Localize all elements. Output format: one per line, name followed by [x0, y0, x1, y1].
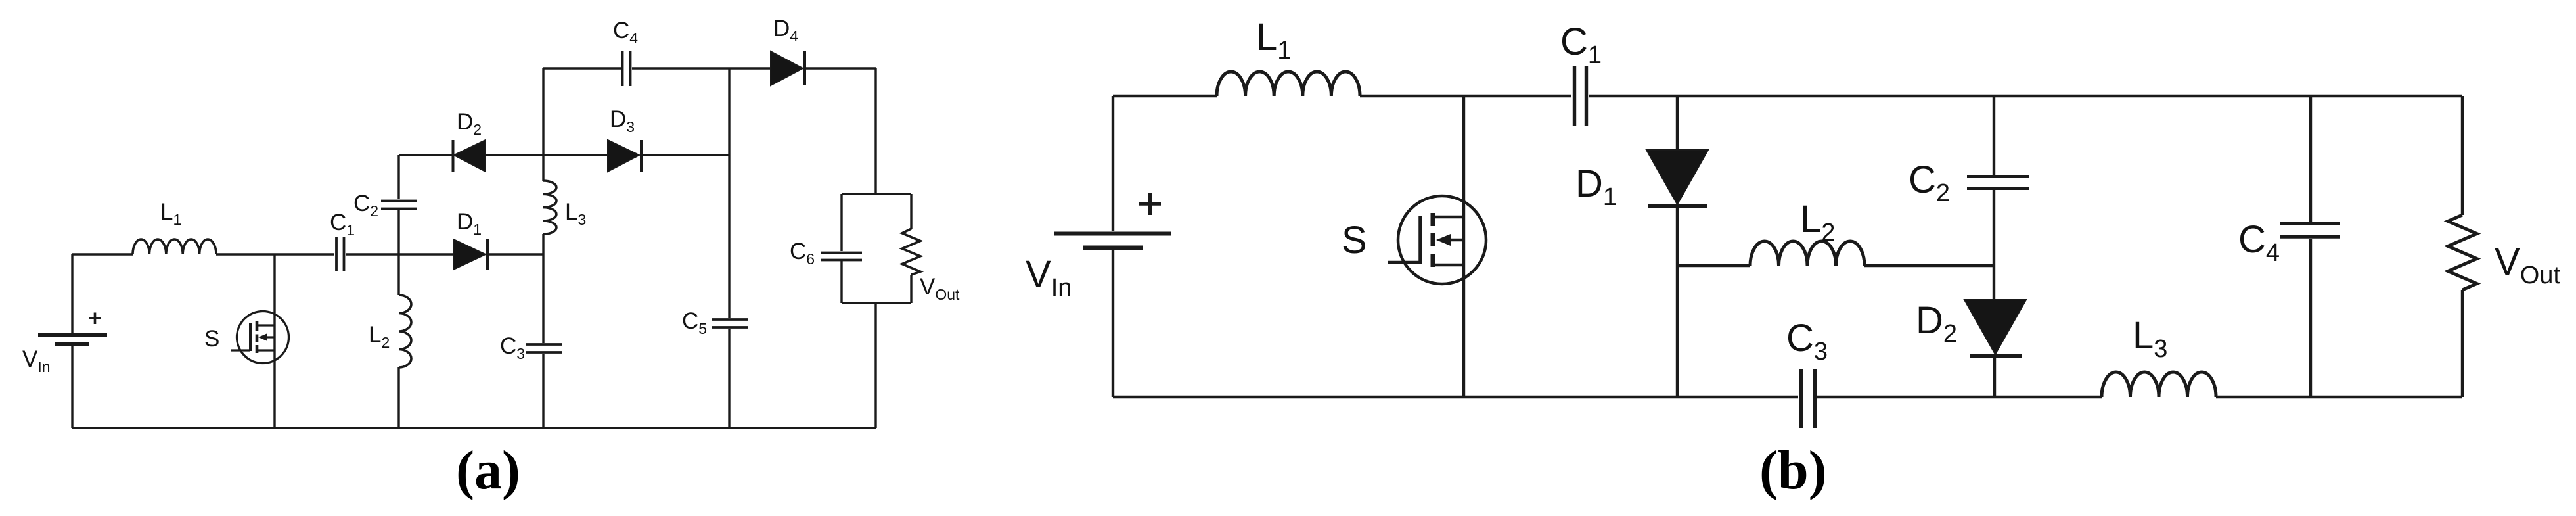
label D1 (a) [457, 209, 482, 238]
label C1 (a) [330, 210, 355, 239]
capacitor C1 (b) [1575, 66, 1587, 126]
capacitor C6 (a) [821, 253, 862, 260]
svg-text:S: S [1342, 219, 1367, 262]
label C6 (a) [790, 239, 815, 268]
polarity plus (b) [1139, 193, 1161, 215]
label D2 (b) [1916, 299, 1957, 348]
transistor S (b) mosfet [1388, 196, 1486, 284]
wire input net (a) [72, 253, 334, 255]
svg-text:C3: C3 [1786, 317, 1828, 365]
svg-text:L3: L3 [565, 199, 586, 228]
svg-text:L1: L1 [1256, 16, 1291, 64]
label C2 (a) [353, 191, 378, 220]
wire D2-D3 net (a) [399, 154, 729, 156]
capacitor C4 (a) [623, 51, 631, 86]
inductor L1 (b) [1217, 72, 1360, 96]
diode D1 (a) [453, 239, 487, 270]
label D3 (a) [610, 106, 635, 135]
svg-text:VOut: VOut [920, 274, 960, 303]
svg-text:(b): (b) [1759, 440, 1827, 501]
label V_Out (a) [920, 274, 960, 303]
label L2 (b) [1800, 198, 1835, 246]
label V_In (a) [22, 346, 51, 375]
capacitor C4 (b) [2280, 223, 2340, 237]
label D2 (a) [457, 109, 482, 138]
label V_In (b) [1026, 253, 1072, 302]
label S (a) [204, 326, 219, 352]
diode D1 (b) [1646, 150, 1708, 206]
wire C5 branch (a) [728, 68, 730, 428]
label C3 (a) [500, 333, 525, 362]
wire bottom rail (b) [1113, 396, 2462, 398]
wire C2-D2 branch (b) [1994, 96, 1995, 397]
svg-text:D2: D2 [457, 109, 482, 138]
transistor S (a) mosfet [231, 312, 289, 364]
wire bottom rail (a) [72, 427, 876, 429]
label S (b) [1342, 219, 1367, 262]
wire node C1-D1 (a) [346, 253, 453, 255]
battery V_In (a) [38, 335, 107, 344]
caption (a) [456, 440, 520, 501]
inductor L3 (b) [2102, 372, 2216, 397]
resistor load (a) [902, 229, 920, 275]
capacitor C2 (b) [1967, 177, 2029, 189]
caption (b) [1759, 440, 1827, 501]
svg-text:C5: C5 [682, 308, 707, 337]
diode D3 (a) [608, 140, 641, 172]
svg-text:C3: C3 [500, 333, 525, 362]
inductor L1 (a) [133, 239, 216, 254]
capacitor C1 (a) [336, 237, 344, 271]
wire switch branch (b) [1462, 96, 1465, 397]
svg-text:VIn: VIn [22, 346, 51, 375]
svg-text:L1: L1 [160, 199, 181, 228]
svg-text:C2: C2 [1909, 158, 1950, 207]
label D1 (b) [1575, 162, 1617, 211]
capacitor C3 (b) [1801, 369, 1815, 428]
svg-text:L2: L2 [369, 322, 390, 351]
label C2 (b) [1909, 158, 1950, 207]
label D4 (a) [773, 16, 798, 45]
svg-text:S: S [204, 326, 219, 352]
battery V_In (b) [1054, 234, 1171, 248]
svg-text:C6: C6 [790, 239, 815, 268]
svg-text:L3: L3 [2133, 314, 2167, 363]
svg-text:C4: C4 [613, 18, 638, 47]
label L1 (a) [160, 199, 181, 228]
svg-text:(a): (a) [456, 440, 520, 501]
label C3 (b) [1786, 317, 1828, 365]
wire D1 cathode to L3 branch (a) [487, 253, 543, 255]
polarity plus (a) [89, 313, 101, 325]
label C1 (b) [1560, 20, 1602, 69]
wire switch branch (a) [273, 254, 275, 428]
wire top rail (b) [1113, 95, 2462, 97]
inductor L3 (a) [543, 181, 556, 234]
wire left rail (a) [71, 254, 73, 428]
svg-text:C1: C1 [1560, 20, 1602, 69]
label C4 (b) [2238, 218, 2280, 267]
label V_Out (b) [2495, 241, 2560, 289]
svg-text:D2: D2 [1916, 299, 1957, 348]
wire left rail (b) [1112, 96, 1114, 397]
wire C4 branch (b) [2309, 96, 2312, 397]
capacitor C3 (a) [526, 344, 562, 352]
wire D1 branch (b) [1676, 96, 1679, 397]
svg-text:VIn: VIn [1026, 253, 1072, 302]
label C5 (a) [682, 308, 707, 337]
wire right rail (b) [2461, 96, 2464, 397]
capacitor C2 (a) [381, 201, 417, 209]
inductor L2 (b) [1750, 241, 1864, 266]
label L2 (a) [369, 322, 390, 351]
svg-text:C2: C2 [353, 191, 378, 220]
label L3 (b) [2133, 314, 2167, 363]
diode D2 (b) [1964, 300, 2026, 356]
svg-text:D3: D3 [610, 106, 635, 135]
capacitor C5 (a) [712, 319, 748, 327]
wire output branch (a) [842, 68, 911, 428]
label L1 (b) [1256, 16, 1291, 64]
svg-text:D4: D4 [773, 16, 798, 45]
wire C2-L2 branch (a) [397, 155, 399, 428]
wire L3 branch (a) [542, 68, 544, 428]
diode D2 (a) [453, 140, 486, 172]
svg-text:VOut: VOut [2495, 241, 2560, 289]
svg-text:L2: L2 [1800, 198, 1835, 246]
label C4 (a) [613, 18, 638, 47]
wire top net (a) [543, 67, 876, 69]
resistor load (b) [2448, 215, 2477, 290]
svg-text:C1: C1 [330, 210, 355, 239]
svg-text:D1: D1 [457, 209, 482, 238]
inductor L2 (a) [399, 295, 411, 367]
svg-text:D1: D1 [1575, 162, 1617, 211]
svg-text:C4: C4 [2238, 218, 2280, 267]
label L3 (a) [565, 199, 586, 228]
diode D4 (a) [771, 51, 805, 85]
wire L2 net (b) [1677, 264, 1994, 267]
